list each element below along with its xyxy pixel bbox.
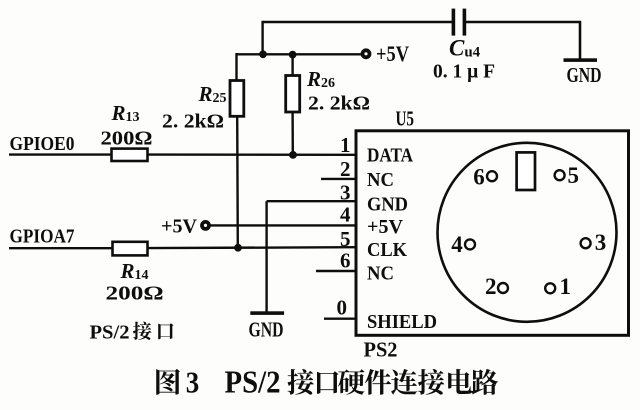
ground GND top-right symbol bbox=[564, 58, 598, 62]
wire GND drop bbox=[265, 201, 267, 312]
junction of top rail drop and +5V rail bbox=[259, 50, 267, 58]
PS/2 connector circle bbox=[438, 143, 617, 322]
wire R26 bottom lead bbox=[291, 112, 294, 155]
svg-text:GPIOE0: GPIOE0 bbox=[10, 133, 75, 155]
svg-text:2: 2 bbox=[340, 157, 351, 181]
wire top rail left of C_u4 bbox=[263, 21, 453, 23]
wire U5 pin0 SHIELD stub bbox=[324, 318, 356, 320]
svg-text:U5: U5 bbox=[396, 106, 415, 130]
connector pin hole 1 bbox=[545, 283, 555, 293]
svg-text:3: 3 bbox=[340, 181, 351, 205]
svg-text:+5V: +5V bbox=[161, 215, 198, 237]
svg-text:PS2: PS2 bbox=[364, 338, 398, 362]
resistor R25 body bbox=[230, 81, 244, 117]
svg-text:200Ω: 200Ω bbox=[101, 128, 153, 150]
caption: figure 3 PS/2 interface hardware connection circuit bbox=[156, 369, 180, 395]
svg-text:2: 2 bbox=[485, 274, 497, 299]
wire +5V rail bbox=[237, 53, 362, 55]
key slot rectangle bbox=[517, 152, 535, 190]
svg-text:NC: NC bbox=[367, 169, 394, 191]
wire GPIOE0 to R13 bbox=[9, 153, 112, 155]
svg-text:1: 1 bbox=[340, 133, 351, 157]
svg-text:3: 3 bbox=[186, 364, 200, 399]
ground GND center symbol bbox=[250, 311, 284, 315]
svg-text:DATA: DATA bbox=[367, 145, 413, 167]
wire U5 pin2 NC stub bbox=[321, 178, 356, 180]
svg-text:+5V: +5V bbox=[367, 216, 404, 238]
wire R25 top lead bbox=[235, 53, 237, 81]
wire R25 bottom lead down to CLK line bbox=[236, 116, 239, 248]
svg-text:GND: GND bbox=[249, 318, 284, 342]
svg-text:4: 4 bbox=[451, 232, 463, 257]
svg-text:GND: GND bbox=[367, 193, 408, 215]
wire down to GND right bbox=[579, 21, 582, 60]
svg-text:+5V: +5V bbox=[376, 41, 409, 66]
svg-text:0: 0 bbox=[337, 296, 348, 320]
connector pin hole 3 bbox=[581, 238, 591, 248]
svg-text:GND: GND bbox=[567, 63, 602, 87]
svg-text:2. 2kΩ: 2. 2kΩ bbox=[162, 111, 224, 133]
svg-text:SHIELD: SHIELD bbox=[367, 311, 437, 333]
svg-text:3: 3 bbox=[595, 230, 607, 255]
wire top rail right of C_u4 bbox=[464, 21, 580, 23]
svg-text:2. 2kΩ: 2. 2kΩ bbox=[308, 93, 370, 115]
wire R14 to U5 pin5 CLK bbox=[148, 246, 356, 249]
svg-text:NC: NC bbox=[367, 262, 394, 284]
resistor R13 body bbox=[112, 149, 148, 161]
wire R13 to U5 pin1 DATA bbox=[148, 153, 356, 156]
svg-text:4: 4 bbox=[340, 203, 351, 227]
connector U5 box outline bbox=[356, 131, 629, 335]
svg-text:200Ω: 200Ω bbox=[106, 283, 164, 305]
svg-text:5: 5 bbox=[568, 163, 580, 188]
junction R26 top on +5V rail bbox=[289, 51, 297, 59]
junction R26 bottom on DATA line bbox=[289, 151, 297, 159]
node +5V terminal (pin4) bbox=[202, 222, 209, 229]
capacitor Cu4 plates bbox=[452, 9, 456, 36]
wire U5 pin6 NC stub bbox=[316, 270, 356, 272]
svg-text:PS/2: PS/2 bbox=[225, 363, 281, 399]
wire corner down to +5V rail bbox=[261, 21, 263, 55]
wire GPIOA7 to R14 bbox=[9, 247, 113, 249]
connector pin hole 5 bbox=[555, 170, 565, 180]
svg-text:0. 1 μ F: 0. 1 μ F bbox=[433, 61, 495, 83]
svg-text:CLK: CLK bbox=[367, 239, 407, 261]
wire U5 pin3 GND horizontal bbox=[267, 200, 356, 202]
svg-text:6: 6 bbox=[340, 249, 351, 273]
junction R25 bottom on CLK line bbox=[234, 244, 242, 252]
connector pin hole 6 bbox=[487, 171, 497, 181]
node +5V terminal (top) bbox=[363, 50, 370, 57]
svg-text:PS/2: PS/2 bbox=[90, 322, 130, 344]
connector pin hole 2 bbox=[498, 283, 508, 293]
resistor R14 body bbox=[113, 242, 148, 256]
resistor R26 body bbox=[286, 76, 300, 113]
svg-text:1: 1 bbox=[560, 274, 572, 299]
connector pin hole 4 bbox=[465, 239, 475, 249]
wire +5V to U5 pin4 bbox=[210, 224, 355, 226]
svg-text:GPIOA7: GPIOA7 bbox=[10, 226, 75, 248]
wire R26 top lead bbox=[291, 55, 293, 77]
svg-text:6: 6 bbox=[473, 164, 485, 189]
svg-text:5: 5 bbox=[340, 227, 351, 251]
